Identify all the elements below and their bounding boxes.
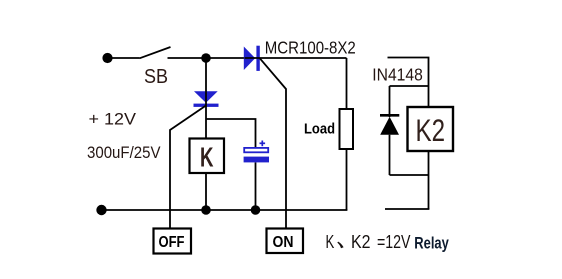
svg-text:MCR100-8X2: MCR100-8X2 xyxy=(265,38,356,58)
wire load top lead xyxy=(346,58,348,109)
svg-text:K: K xyxy=(326,231,335,252)
switch SB xyxy=(112,47,171,58)
svg-text:300uF/25V: 300uF/25V xyxy=(87,143,161,162)
svg-text:K2: K2 xyxy=(351,231,371,252)
load resistor RL xyxy=(340,109,354,149)
bottom rail wire xyxy=(101,209,347,211)
wire diode D2 top node xyxy=(390,85,429,87)
wire to OFF button xyxy=(170,106,206,229)
wire capacitor to bottom rail xyxy=(255,163,257,211)
push button OFF box xyxy=(154,229,192,254)
svg-text:=12V: =12V xyxy=(377,231,411,252)
wire K2 branch supply stub top xyxy=(388,58,429,108)
wire main vertical junction through D1 to relay K xyxy=(205,58,207,139)
svg-text:IN4148: IN4148 xyxy=(372,65,423,85)
wire relay K to bottom rail xyxy=(205,173,207,210)
relay coil K2 box xyxy=(408,107,454,151)
wire D2 bottom to K2 lead xyxy=(390,174,429,176)
node capacitor at bottom rail xyxy=(251,205,261,215)
wire top rail switch to SCR anode xyxy=(168,57,245,59)
svg-text:ON: ON xyxy=(273,234,294,251)
svg-text:SB: SB xyxy=(144,66,168,88)
terminal dot positive supply top left xyxy=(102,53,112,63)
svg-text:Relay: Relay xyxy=(414,235,449,253)
capacitor C1 300uF electrolytic xyxy=(244,141,269,163)
push button ON box xyxy=(267,229,304,254)
wire load bottom lead xyxy=(346,149,348,210)
wire branch to capacitor C1 xyxy=(206,119,256,148)
svg-text:K: K xyxy=(200,142,214,173)
relay coil K box xyxy=(190,139,225,174)
node relay K at bottom rail xyxy=(201,205,211,215)
svg-text:OFF: OFF xyxy=(159,234,185,251)
node top junction xyxy=(201,53,211,63)
wire K2 coil bottom lead xyxy=(428,151,430,209)
SCR U1 MCR100-8X2 xyxy=(244,46,260,71)
label K and K2 equals 12V xyxy=(326,231,411,252)
wire K2 return stub bottom xyxy=(385,208,429,210)
diode D2 IN4148 xyxy=(380,86,399,175)
terminal dot negative supply bottom left xyxy=(96,205,106,215)
svg-text:Load: Load xyxy=(304,121,335,138)
diode D1 blue xyxy=(194,91,219,107)
wire SCR gate to ON button xyxy=(260,58,286,228)
svg-text:+ 12V: + 12V xyxy=(89,110,137,129)
svg-text:K2: K2 xyxy=(416,112,446,148)
wire SCR cathode to load xyxy=(245,57,347,59)
